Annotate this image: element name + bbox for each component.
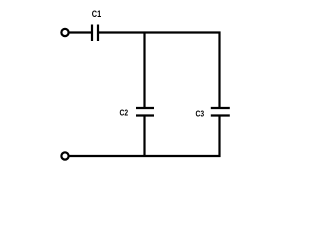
svg-text:C3: C3 [196, 109, 205, 119]
wire (top rail: C1 right plate to top-right corner) [98, 31, 221, 33]
capacitor C1 [92, 25, 98, 42]
capacitor C2 [136, 108, 154, 116]
svg-text:C1: C1 [92, 9, 101, 19]
capacitor C3 [211, 108, 230, 116]
svg-text:C2: C2 [120, 108, 129, 118]
terminal T1 (top-left open terminal) [61, 29, 68, 36]
wire (C3 bottom plate down to bottom-right corner) [218, 116, 220, 158]
wire (terminal T1 to C1 left plate) [69, 31, 91, 33]
terminal T2 (bottom-left open terminal) [61, 152, 68, 159]
wire (bottom rail: terminal T2 to bottom-right corner) [69, 155, 220, 157]
wire (C2 bottom plate down to bottom rail) [143, 116, 145, 157]
wire (C2 branch: top rail down to C2 top plate) [143, 32, 145, 109]
wire (right branch: top-right corner down to C3 top plate) [218, 32, 220, 109]
